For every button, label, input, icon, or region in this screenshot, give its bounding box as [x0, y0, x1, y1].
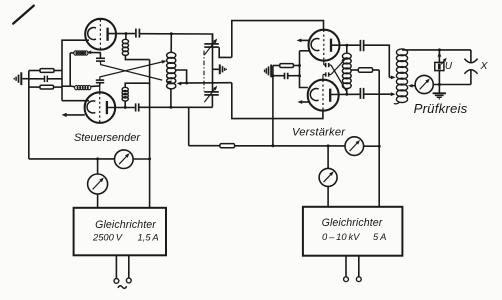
top rail of test circuit: [402, 49, 471, 51]
V4 cathode arrow lead: [300, 101, 310, 103]
spark gap upper electrode: [464, 59, 477, 63]
amplifier tank coil L2: [342, 53, 351, 59]
wire anode line to tank: [139, 34, 212, 44]
svg-text:Gleichrichter: Gleichrichter: [95, 219, 156, 231]
cross wire A (V1 grid to tank tap): [100, 61, 162, 80]
variable capacitor CV2: [204, 91, 219, 93]
right rail upper: [470, 50, 472, 62]
resistor R5: [220, 144, 235, 148]
tube V2 (Steuersender lower triode): [85, 92, 116, 123]
M5 tap arrow into coil: [411, 85, 415, 87]
svg-text:5 A: 5 A: [373, 231, 386, 242]
capacitor Cg1 (V1 grid): [96, 57, 105, 59]
tube V1 (Steuersender upper triode): [85, 19, 116, 50]
grid feed elbow: [62, 85, 70, 87]
junction dot: [148, 157, 151, 160]
terminal 2a: [345, 256, 347, 277]
svg-text:Verstärker: Verstärker: [292, 126, 346, 138]
wire V2 anode line to tank bottom: [139, 106, 213, 108]
corner R4/C4 left: [272, 66, 274, 76]
junction dot anode/tank top: [170, 32, 173, 35]
U adjuster arrow: [441, 59, 445, 64]
AC tilde: [118, 286, 127, 289]
junction dot M2 branch: [96, 157, 99, 160]
wire V2 grid stem: [99, 83, 101, 93]
svg-text:Prüfkreis: Prüfkreis: [414, 101, 468, 116]
grid feed vertical: [69, 53, 71, 86]
rectifier box 2: [303, 207, 403, 256]
svg-text:U: U: [445, 61, 453, 72]
capacitor Cg2 (V2 grid): [96, 79, 104, 81]
resistor R2: [40, 85, 54, 89]
supply rail middle: [235, 145, 345, 147]
wire V1 anode lead: [108, 33, 136, 35]
capacitor C1: [44, 76, 46, 83]
junction dot tap: [185, 82, 188, 85]
C5 cross wire to lower plate line: [329, 64, 331, 66]
svg-text:2500 V: 2500 V: [92, 232, 123, 243]
wire V2 anode lead: [107, 107, 135, 109]
wire C7 to test circuit: [364, 45, 390, 77]
wire V2 filament lead with arrow: [64, 114, 85, 116]
V3 cathode arrow lead: [299, 39, 309, 41]
junction dot rail end: [378, 145, 381, 148]
test circuit coil L3: [396, 49, 407, 56]
ammeter M5: [415, 75, 433, 93]
V3 lower lead to grid bus: [300, 50, 310, 52]
CV2 rotor arrow: [204, 88, 215, 103]
wire V1 grid with arrow: [89, 51, 101, 53]
junction dot tank bottom: [169, 106, 172, 109]
meter M4 branch: [327, 146, 329, 169]
terminal 1a: [115, 255, 117, 278]
right rail lower: [470, 70, 472, 85]
stator through line: [212, 34, 214, 92]
meter M3: [345, 137, 364, 156]
wire V2 cathode upper lead: [62, 100, 89, 102]
rail M1 to supply vertical: [133, 158, 150, 160]
capacitor C4 grid: [284, 73, 286, 80]
junction dot U branch: [438, 48, 441, 51]
U to ground stem: [438, 71, 440, 93]
wire C8 to test circuit: [364, 93, 391, 95]
bottom rail of test circuit: [433, 84, 471, 86]
tank tap wire upper: [176, 70, 187, 83]
terminal 2b: [358, 256, 360, 277]
left rail vertical: [28, 71, 30, 159]
junction dot: [271, 74, 274, 77]
rectifier box 1: [74, 208, 166, 256]
stray pen stroke top-left: [13, 6, 34, 24]
grid choke Dr1: [74, 51, 77, 55]
neutralizing capacitor C5: [325, 63, 327, 67]
CV1 to frame riser: [219, 47, 232, 57]
ground G5: [270, 65, 272, 78]
ground feed to bottom rail: [272, 76, 274, 146]
grid choke Dr2: [75, 85, 78, 89]
V4 anode wire: [330, 93, 359, 95]
cross wire B (V2 grid to tank tap): [100, 62, 162, 80]
C6 cross wire to upper plate line: [329, 74, 331, 76]
resistor R3: [358, 68, 372, 72]
capacitor C3 in V2 anode line: [135, 103, 137, 111]
CV2 stem to plate line: [211, 95, 213, 107]
tube V3 (amplifier upper): [309, 30, 340, 61]
svg-text:0 – 10 kV: 0 – 10 kV: [322, 231, 360, 242]
plate line drop to supply rail: [188, 107, 190, 145]
capacitor C2 in V1 anode line: [135, 29, 137, 38]
supply rail right segment: [364, 145, 380, 147]
junction dots supply rail: [271, 144, 274, 147]
tube V4 (amplifier lower): [308, 80, 339, 111]
wire V1 cathode to left bus: [62, 40, 89, 70]
plate choke Dr3: [122, 39, 128, 43]
ground G1: [22, 78, 29, 80]
CV1 rotor arrow: [204, 40, 215, 55]
grid bus vertical: [299, 51, 301, 76]
svg-text:Steuersender: Steuersender: [74, 132, 141, 144]
junction dots grid bus: [298, 64, 301, 67]
plate choke Dr4: [122, 87, 128, 91]
supply feed vertical: [149, 60, 151, 208]
junction dot anode/choke: [124, 32, 127, 35]
svg-text:1,5 A: 1,5 A: [138, 232, 159, 243]
frame bottom rail to V4 grid: [232, 83, 323, 119]
tank coil L1: [167, 52, 176, 58]
terminal 1b: [128, 255, 130, 278]
meter M1: [115, 150, 134, 169]
frame top rail to V3 grid: [232, 21, 324, 58]
ground G3: [433, 92, 446, 94]
svg-text:Gleichrichter: Gleichrichter: [322, 217, 383, 229]
svg-text:X: X: [479, 60, 488, 72]
voltmeter U box: [435, 62, 444, 70]
left cathode bus: [61, 70, 63, 100]
coupling capacitor C7: [359, 40, 361, 51]
R3 to bottom rail vertical: [378, 70, 380, 146]
gang link dash-dot: [203, 51, 205, 92]
supply rail left segment: [189, 145, 220, 147]
U meter branch arrow up: [438, 50, 440, 63]
Steuersender bottom rail: [29, 158, 115, 160]
coupling capacitor C8: [359, 88, 361, 99]
resistor R1: [40, 69, 54, 73]
junction dot bottom rail: [438, 83, 441, 86]
V3 anode wire: [331, 44, 360, 46]
resistor R4 grid leak: [280, 64, 294, 68]
neutralizing capacitor C6: [325, 72, 327, 76]
vertical to rectifier 2: [378, 146, 380, 207]
V4 upper lead to grid bus: [300, 76, 308, 88]
spark gap lower electrode: [464, 70, 477, 74]
junction dots L2: [345, 44, 348, 47]
ground G2: [213, 68, 219, 70]
tank tap arrow to V4 side: [180, 82, 232, 84]
junction dot choke b: [124, 106, 127, 109]
variable capacitor CV1: [204, 43, 219, 45]
meter M2 branch: [97, 159, 99, 174]
